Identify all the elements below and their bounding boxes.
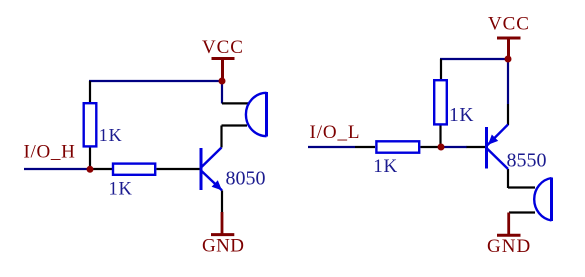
svg-text:VCC: VCC — [202, 37, 244, 58]
svg-text:VCC: VCC — [488, 14, 530, 35]
svg-text:1K: 1K — [109, 180, 133, 200]
svg-text:I/O_H: I/O_H — [24, 142, 76, 163]
svg-text:8050: 8050 — [226, 168, 266, 190]
svg-text:1K: 1K — [449, 105, 474, 126]
svg-text:8550: 8550 — [507, 150, 547, 172]
svg-text:GND: GND — [487, 236, 531, 257]
svg-text:GND: GND — [202, 236, 244, 257]
svg-text:1K: 1K — [373, 156, 398, 177]
svg-text:1K: 1K — [99, 125, 123, 145]
svg-text:I/O_L: I/O_L — [310, 122, 361, 143]
